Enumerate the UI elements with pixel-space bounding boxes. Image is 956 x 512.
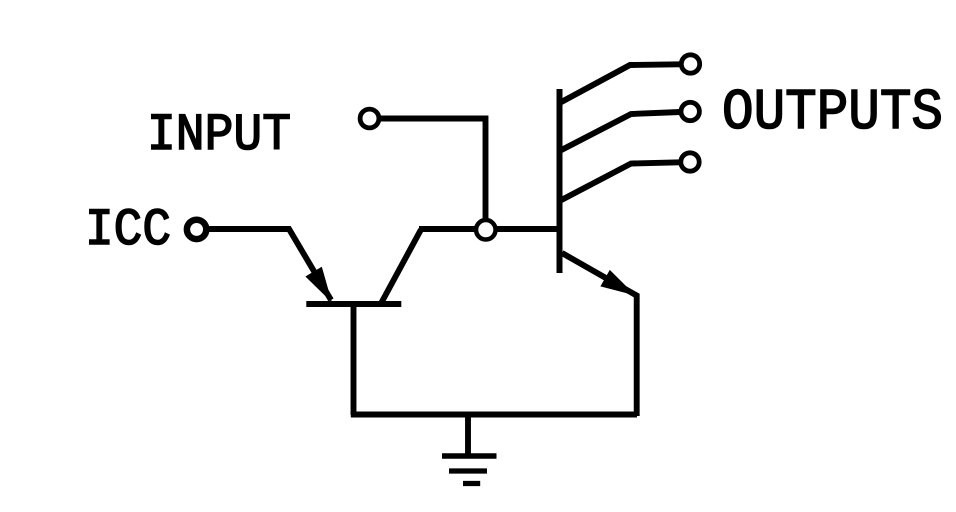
node A junction	[476, 220, 496, 240]
wire INPUT terminal down to node A	[379, 119, 486, 230]
wire Q2 collector 1	[560, 64, 681, 103]
wire Q2 collector 3	[560, 162, 681, 201]
wire ICC input to Q1 emitter	[207, 229, 331, 300]
svg-text:OUTPUTS: OUTPUTS	[722, 81, 943, 146]
wire Q2 collector 2	[560, 112, 681, 151]
terminal output 2	[681, 102, 699, 120]
svg-text:ICC: ICC	[85, 201, 171, 260]
transistor Q2 base bar	[557, 89, 563, 273]
wire top rail Q1 collector to Q2 base	[419, 226, 560, 232]
ground	[442, 415, 497, 484]
transistor Q1 base bar	[306, 301, 401, 307]
wire Q1 base lead to bottom rail	[351, 302, 357, 416]
terminal output 1	[681, 55, 699, 73]
svg-text:INPUT: INPUT	[147, 106, 291, 165]
transistor Q2 emitter wire	[562, 253, 637, 416]
wire bottom rail	[351, 412, 637, 418]
terminal output 3	[681, 153, 699, 171]
transistor Q1 emitter arrowhead	[305, 267, 332, 303]
terminal INPUT	[360, 109, 379, 128]
terminal ICC	[187, 220, 206, 239]
transistor Q1 collector	[382, 230, 422, 303]
transistor Q2 emitter arrowhead	[600, 270, 635, 296]
